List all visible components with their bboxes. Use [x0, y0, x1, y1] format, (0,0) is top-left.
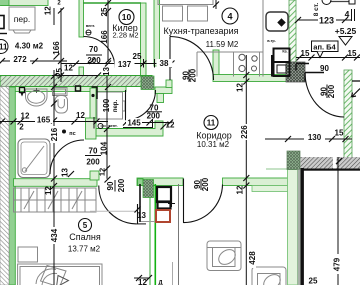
svg-text:25: 25	[100, 7, 109, 16]
svg-text:10: 10	[122, 12, 132, 22]
svg-text:4: 4	[345, 9, 350, 19]
svg-text:25: 25	[309, 277, 318, 285]
svg-text:123: 123	[319, 16, 334, 26]
svg-text:2: 2	[19, 123, 24, 132]
svg-text:200: 200	[189, 68, 198, 82]
svg-text:в.тр.: в.тр.	[267, 39, 276, 43]
svg-text:428: 428	[248, 251, 257, 265]
svg-text:104: 104	[100, 141, 109, 155]
svg-text:479: 479	[333, 257, 342, 271]
svg-text:200: 200	[147, 112, 161, 121]
svg-text:200: 200	[201, 177, 210, 191]
svg-text:12: 12	[166, 121, 175, 130]
svg-text:13: 13	[102, 67, 111, 76]
svg-text:+5.25: +5.25	[335, 26, 357, 36]
svg-text:38: 38	[160, 59, 169, 68]
svg-text:166: 166	[100, 30, 109, 44]
svg-text:70: 70	[89, 147, 98, 156]
svg-text:13.77 м2: 13.77 м2	[68, 245, 101, 254]
svg-text:13: 13	[61, 168, 70, 177]
svg-text:Спалня: Спалня	[69, 232, 101, 242]
svg-text:226: 226	[240, 125, 249, 139]
svg-text:166: 166	[52, 41, 61, 55]
svg-text:15: 15	[348, 49, 357, 58]
svg-text:12: 12	[21, 112, 30, 121]
svg-text:25: 25	[133, 52, 142, 61]
svg-text:90: 90	[320, 64, 329, 73]
svg-text:12: 12	[138, 278, 147, 285]
svg-text:12: 12	[64, 64, 73, 73]
svg-text:Кухня-трапезария: Кухня-трапезария	[164, 26, 239, 36]
svg-text:200: 200	[86, 158, 100, 167]
svg-text:200: 200	[117, 178, 126, 192]
svg-text:165: 165	[37, 116, 51, 125]
svg-text:вент.: вент.	[86, 24, 95, 28]
svg-text:12: 12	[236, 83, 245, 92]
svg-text:Коридор: Коридор	[196, 131, 232, 141]
svg-text:13: 13	[137, 211, 146, 220]
svg-text:пер.: пер.	[113, 100, 119, 113]
svg-text:11: 11	[207, 119, 216, 128]
svg-text:272: 272	[13, 55, 27, 64]
svg-text:5: 5	[83, 221, 88, 230]
svg-text:ап. Б4: ап. Б4	[313, 43, 336, 52]
svg-text:12: 12	[43, 6, 52, 15]
svg-text:12: 12	[98, 168, 107, 176]
svg-text:Кв.: Кв.	[282, 50, 287, 54]
svg-text:130: 130	[308, 133, 322, 142]
svg-text:Д: Д	[158, 281, 163, 285]
svg-text:11: 11	[0, 43, 8, 52]
svg-text:12: 12	[76, 111, 85, 120]
svg-text:15: 15	[301, 49, 310, 58]
svg-text:25: 25	[55, 68, 64, 77]
svg-text:137: 137	[118, 60, 132, 69]
svg-text:216: 216	[50, 127, 59, 141]
svg-text:15: 15	[335, 129, 344, 138]
svg-text:100: 100	[102, 98, 111, 112]
svg-text:пер.: пер.	[14, 14, 30, 24]
svg-text:пс: пс	[69, 131, 75, 137]
svg-text:90: 90	[106, 181, 115, 190]
svg-text:8 ст.: 8 ст.	[313, 3, 320, 17]
svg-text:434: 434	[50, 228, 59, 242]
svg-text:200: 200	[327, 84, 336, 98]
svg-text:200: 200	[87, 56, 101, 65]
svg-text:12: 12	[44, 186, 53, 195]
svg-text:2.28 м2: 2.28 м2	[112, 31, 138, 40]
svg-text:4: 4	[227, 12, 232, 22]
svg-text:10.31 м2: 10.31 м2	[197, 140, 230, 149]
svg-text:12: 12	[236, 185, 245, 194]
svg-text:11.59 М2: 11.59 М2	[206, 40, 239, 49]
svg-text:4.30 м2: 4.30 м2	[15, 42, 44, 51]
svg-text:70: 70	[89, 45, 98, 54]
svg-text:145: 145	[127, 119, 141, 128]
